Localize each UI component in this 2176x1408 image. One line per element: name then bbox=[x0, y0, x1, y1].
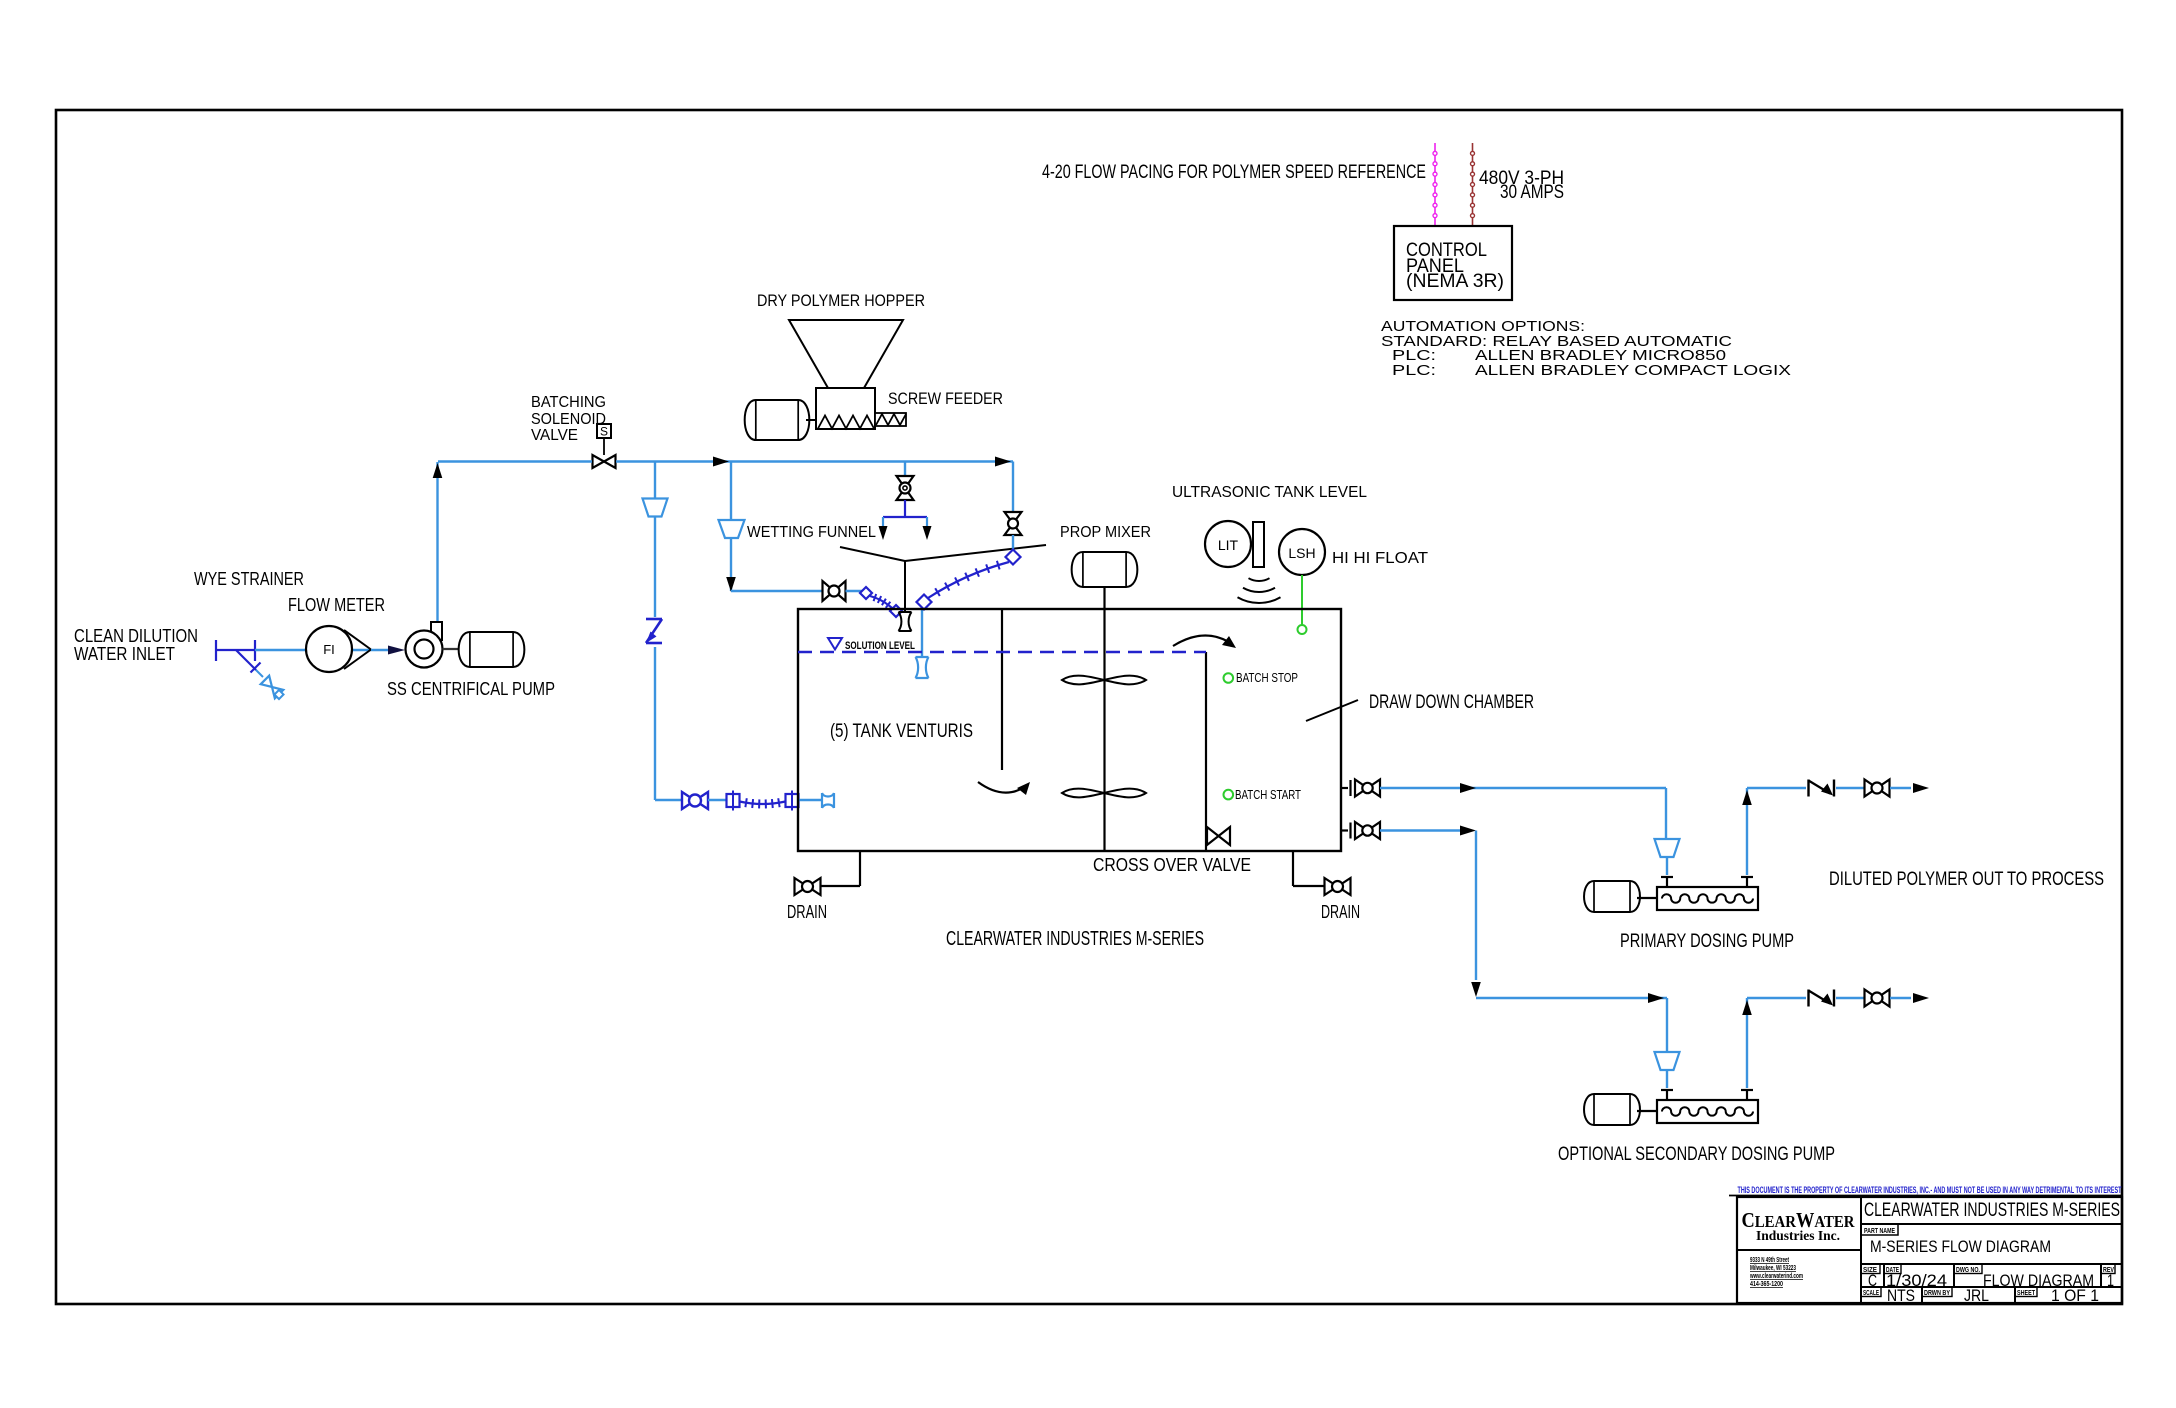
svg-text:LSH: LSH bbox=[1288, 545, 1315, 561]
svg-text:DRAIN: DRAIN bbox=[1321, 902, 1360, 922]
svg-text:4-20 FLOW PACING FOR POLYMER S: 4-20 FLOW PACING FOR POLYMER SPEED REFER… bbox=[1042, 162, 1426, 183]
svg-text:(NEMA 3R): (NEMA 3R) bbox=[1406, 271, 1504, 292]
svg-text:HI HI FLOAT: HI HI FLOAT bbox=[1332, 550, 1428, 567]
svg-text:CLEAN DILUTION: CLEAN DILUTION bbox=[74, 626, 198, 646]
svg-text:FI: FI bbox=[323, 642, 335, 657]
svg-text:PART NAME: PART NAME bbox=[1864, 1228, 1895, 1235]
svg-text:1 OF 1: 1 OF 1 bbox=[2051, 1286, 2099, 1305]
svg-text:CROSS OVER VALVE: CROSS OVER VALVE bbox=[1093, 855, 1251, 875]
svg-text:ALLEN BRADLEY COMPACT LOGIX: ALLEN BRADLEY COMPACT LOGIX bbox=[1475, 362, 1791, 379]
svg-text:DWG NO.: DWG NO. bbox=[1956, 1267, 1980, 1274]
svg-text:PROP MIXER: PROP MIXER bbox=[1060, 524, 1151, 541]
svg-text:WETTING FUNNEL: WETTING FUNNEL bbox=[747, 524, 876, 541]
svg-text:VALVE: VALVE bbox=[531, 427, 578, 444]
svg-text:414-365-1200: 414-365-1200 bbox=[1750, 1279, 1783, 1288]
svg-text:CLEARWATER INDUSTRIES M-SERIES: CLEARWATER INDUSTRIES M-SERIES bbox=[946, 928, 1204, 950]
svg-text:DRAW DOWN CHAMBER: DRAW DOWN CHAMBER bbox=[1369, 692, 1534, 713]
svg-text:THIS DOCUMENT IS THE PROPERTY: THIS DOCUMENT IS THE PROPERTY OF CLEARWA… bbox=[1738, 1185, 2122, 1196]
svg-text:CLEARWATER INDUSTRIES M-SERIES: CLEARWATER INDUSTRIES M-SERIES bbox=[1864, 1200, 2120, 1221]
svg-text:WATER INLET: WATER INLET bbox=[74, 644, 175, 664]
svg-text:PRIMARY DOSING PUMP: PRIMARY DOSING PUMP bbox=[1620, 931, 1794, 952]
svg-text:DRAIN: DRAIN bbox=[787, 902, 827, 922]
svg-text:BATCH STOP: BATCH STOP bbox=[1236, 671, 1298, 685]
svg-text:DRY POLYMER HOPPER: DRY POLYMER HOPPER bbox=[757, 291, 925, 310]
svg-text:BATCH START: BATCH START bbox=[1235, 788, 1301, 802]
svg-text:LIT: LIT bbox=[1218, 537, 1239, 553]
svg-text:JRL: JRL bbox=[1964, 1286, 1989, 1305]
svg-text:SOLENOID: SOLENOID bbox=[531, 411, 606, 428]
svg-text:SOLUTION LEVEL: SOLUTION LEVEL bbox=[845, 640, 915, 652]
svg-text:SS CENTRIFICAL PUMP: SS CENTRIFICAL PUMP bbox=[387, 679, 555, 699]
svg-text:SHEET: SHEET bbox=[2017, 1290, 2036, 1297]
svg-text:DILUTED POLYMER OUT TO PROCESS: DILUTED POLYMER OUT TO PROCESS bbox=[1829, 869, 2104, 890]
svg-text:PLC:: PLC: bbox=[1392, 362, 1436, 379]
svg-text:OPTIONAL SECONDARY DOSING PUMP: OPTIONAL SECONDARY DOSING PUMP bbox=[1558, 1144, 1835, 1165]
svg-text:BATCHING: BATCHING bbox=[531, 394, 606, 411]
svg-text:DRWN BY: DRWN BY bbox=[1924, 1290, 1950, 1297]
svg-text:30 AMPS: 30 AMPS bbox=[1500, 182, 1564, 203]
svg-text:M-SERIES FLOW DIAGRAM: M-SERIES FLOW DIAGRAM bbox=[1870, 1237, 2051, 1256]
svg-text:ULTRASONIC TANK LEVEL: ULTRASONIC TANK LEVEL bbox=[1172, 484, 1367, 501]
svg-text:S: S bbox=[600, 425, 608, 439]
svg-text:SCREW FEEDER: SCREW FEEDER bbox=[888, 389, 1003, 408]
svg-text:WYE STRAINER: WYE STRAINER bbox=[194, 569, 304, 589]
svg-text:(5) TANK VENTURIS: (5) TANK VENTURIS bbox=[830, 721, 973, 742]
svg-text:Industries Inc.: Industries Inc. bbox=[1756, 1228, 1840, 1243]
svg-text:NTS: NTS bbox=[1887, 1286, 1915, 1305]
svg-text:SCALE: SCALE bbox=[1863, 1290, 1879, 1297]
svg-text:FLOW METER: FLOW METER bbox=[288, 595, 385, 615]
